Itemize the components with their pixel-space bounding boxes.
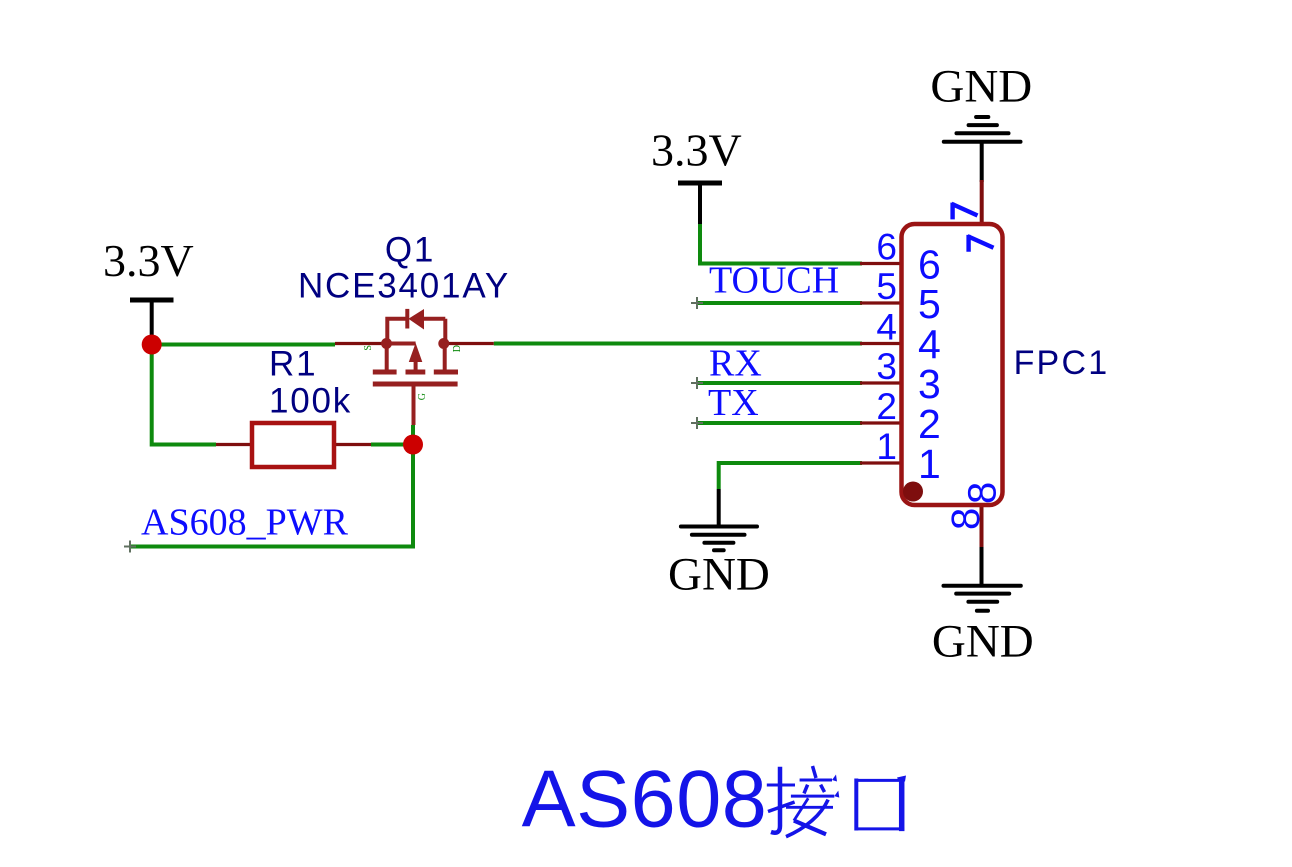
svg-text:2: 2 — [876, 386, 897, 427]
svg-text:6: 6 — [876, 226, 897, 267]
svg-text:3: 3 — [876, 346, 897, 387]
svg-text:4: 4 — [876, 306, 897, 347]
svg-text:3.3V: 3.3V — [651, 125, 742, 176]
svg-text:5: 5 — [918, 281, 941, 327]
svg-text:8: 8 — [944, 508, 988, 530]
svg-text:3.3V: 3.3V — [103, 235, 194, 286]
svg-text:NCE3401AY: NCE3401AY — [298, 267, 510, 306]
svg-text:G: G — [417, 393, 428, 400]
svg-text:GND: GND — [930, 60, 1032, 112]
svg-text:R1: R1 — [269, 345, 317, 384]
svg-text:GND: GND — [668, 548, 770, 600]
svg-text:AS608: AS608 — [522, 755, 768, 845]
svg-text:5: 5 — [876, 266, 897, 307]
svg-text:FPC1: FPC1 — [1014, 344, 1110, 382]
svg-text:TX: TX — [708, 382, 759, 424]
svg-text:RX: RX — [709, 343, 762, 385]
svg-text:S: S — [363, 345, 374, 351]
svg-text:Q1: Q1 — [385, 231, 435, 270]
svg-text:1: 1 — [876, 426, 897, 467]
svg-text:D: D — [452, 345, 463, 352]
svg-text:100k: 100k — [269, 382, 352, 421]
svg-text:TOUCH: TOUCH — [709, 259, 839, 301]
svg-text:8: 8 — [960, 482, 1004, 504]
svg-text:1: 1 — [918, 441, 941, 487]
svg-text:GND: GND — [932, 616, 1034, 668]
svg-text:AS608_PWR: AS608_PWR — [141, 502, 349, 544]
